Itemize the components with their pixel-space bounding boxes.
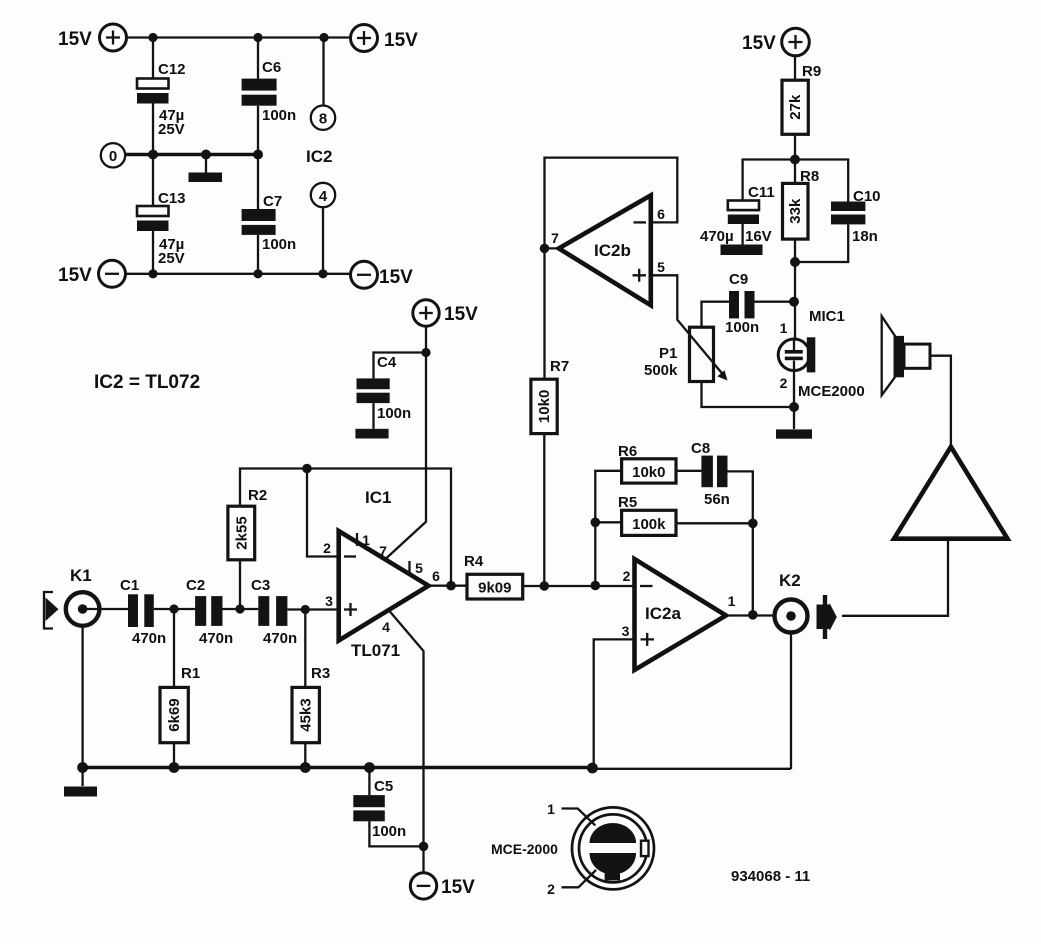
svg-text:45k3: 45k3 [298,698,315,731]
wire C12 branch [152,38,154,155]
svg-text:9k09: 9k09 [478,579,511,596]
resistor R2 [228,487,267,560]
svg-text:IC1: IC1 [365,488,391,507]
op-amp IC1 [339,531,429,641]
wire R1 riser [173,609,175,768]
wire bottom supply rail [126,273,351,275]
svg-text:25V: 25V [158,121,185,138]
svg-text:K1: K1 [70,566,92,585]
svg-text:15V: 15V [58,265,92,286]
wire C2 to C3 [223,608,259,610]
svg-text:C5: C5 [374,778,393,795]
connector key notch [641,841,649,856]
wire main ground rail (thick) [81,766,592,770]
wire R8 bottom [794,239,796,340]
svg-text:470n: 470n [263,630,297,647]
wire R2 top + feedback rail [240,469,451,586]
wire IC1 output [429,585,468,587]
ground C4 [355,429,388,439]
wire C13 branch [152,155,154,274]
svg-text:IC2a: IC2a [645,604,681,623]
svg-text:100n: 100n [372,823,406,840]
wire C5 riser [369,768,423,847]
node ground junctions [77,762,598,773]
svg-text:6k69: 6k69 [166,698,183,731]
terminal -15V bottom [410,873,475,899]
svg-text:100n: 100n [262,236,296,253]
svg-text:R8: R8 [800,168,819,185]
svg-text:2: 2 [547,881,555,897]
capacitor C8 [691,440,730,508]
node riser/pin2 junction [591,581,601,591]
op-amp IC2b [559,195,651,305]
node output junction [446,581,456,591]
capacitor C6 [242,59,297,124]
wire pin4 column to -15V [422,846,424,872]
resistor R9 [782,63,821,134]
svg-text:15V: 15V [379,267,413,288]
ground K1 [64,768,97,797]
pin 8 of IC2 [311,106,335,130]
svg-text:MCE-2000: MCE-2000 [491,841,558,857]
svg-text:R6: R6 [618,443,637,460]
loudspeaker [882,316,930,395]
connector top contact [590,823,637,843]
svg-text:IC2 = TL072: IC2 = TL072 [94,372,200,393]
terminal -15V bottom-right [351,261,414,288]
connector bottom contact [590,853,637,875]
svg-text:R1: R1 [181,665,200,682]
svg-text:C3: C3 [251,577,270,594]
svg-text:33k: 33k [787,198,804,224]
capacitor C3 [251,577,297,647]
svg-text:3: 3 [325,593,333,609]
pin 2 label and minus [623,568,653,586]
svg-text:3: 3 [622,623,630,639]
svg-text:100n: 100n [377,405,411,422]
svg-text:27k: 27k [787,94,804,120]
node junction C3/R3 [301,605,310,614]
connector K1 [66,566,100,626]
svg-text:R7: R7 [550,358,569,375]
capacitor C9 [725,271,759,336]
wire R4 to IC2a pin2 [523,585,634,587]
capacitor C5 [353,778,406,840]
svg-text:100n: 100n [262,107,296,124]
svg-text:R9: R9 [802,63,821,80]
wire R5 right to feedback column [676,522,753,524]
node below R9 [790,155,800,165]
connector body inner ring [579,814,647,882]
pin 3 label and plus [325,593,357,616]
svg-text:1: 1 [547,801,555,817]
svg-text:15V: 15V [441,877,475,898]
resistor R6 [618,443,676,483]
resistor R3 [292,665,330,743]
svg-text:7: 7 [551,230,559,246]
svg-text:C7: C7 [263,193,282,210]
wire C6 branch [257,38,259,155]
node top rail junctions [148,33,328,42]
svg-text:C4: C4 [377,354,397,371]
pin 2 label and minus [323,540,356,557]
node junction C1/R1 [169,604,178,613]
capacitor C10 [831,188,881,245]
wire C10 branch [795,160,848,263]
wire mic bottom [793,370,795,429]
svg-text:470n: 470n [132,630,166,647]
svg-text:100k: 100k [632,516,666,533]
svg-text:R5: R5 [618,494,637,511]
wire C11 branch [743,160,795,246]
wire P1 bottom to mic node [702,382,795,408]
wire C8 right to feedback column [728,471,753,614]
wire ground rail right to K2 [592,768,791,770]
svg-text:C10: C10 [853,188,881,205]
wire C7 branch [257,155,259,274]
svg-text:C11: C11 [748,184,775,201]
wire arrow to amplifier [842,541,948,616]
node IC2b output junction pin7 [540,244,550,254]
svg-text:4: 4 [382,619,390,635]
connector body outer ring [572,807,654,889]
svg-text:2: 2 [780,375,788,391]
svg-text:7: 7 [379,543,387,559]
wire R6/R5 riser [595,471,621,586]
wire R7 column [543,248,546,586]
node bottom rail junctions [148,269,327,278]
node 0 rail junctions [148,150,263,160]
svg-text:5: 5 [657,259,665,275]
svg-text:10k0: 10k0 [536,390,553,423]
resistor R8 [783,168,820,239]
pin 1 tick [357,532,370,548]
ground psu [189,155,223,183]
node R5/C8 column junction [748,519,758,529]
ground C11 [721,245,763,256]
capacitor C2 [186,577,233,647]
wire C4 to ground [372,403,374,429]
wire R6 to C8 [676,470,701,472]
node mic/P1 junction [789,402,799,412]
wire K1 to C1 [84,608,128,610]
leader pin 1 [547,801,595,825]
svg-text:15V: 15V [384,30,418,51]
svg-text:934068 - 11: 934068 - 11 [731,868,810,885]
resistor R4 [464,553,523,599]
svg-text:1: 1 [728,593,736,609]
svg-text:C6: C6 [262,59,281,76]
wire pin8 branch [322,38,324,106]
potentiometer P1 [644,327,714,381]
resistor R5 [618,494,676,535]
svg-text:R2: R2 [248,487,267,504]
wire R9 bottom to node [794,134,796,183]
resistor R1 [160,665,200,743]
svg-text:4: 4 [319,188,328,205]
svg-text:K2: K2 [779,571,801,590]
svg-text:0: 0 [109,148,117,165]
terminal +15V above IC1 [413,300,478,326]
amplifier triangle [894,447,1008,539]
svg-text:15V: 15V [742,33,776,54]
capacitor C12 [137,61,186,138]
wire pin2 riser [307,469,338,557]
svg-text:MIC1: MIC1 [809,308,845,325]
node rail/pin2 junction [302,464,312,474]
svg-text:C8: C8 [691,440,710,457]
svg-text:C1: C1 [120,577,139,594]
svg-text:P1: P1 [659,345,677,362]
terminal +15V top-right [351,25,419,52]
svg-text:C9: C9 [729,271,748,288]
wire pin3 stub and riser [594,639,635,767]
svg-text:16V: 16V [745,228,772,245]
svg-text:15V: 15V [58,29,92,50]
microphone MIC1 [778,308,845,372]
ground mic [776,429,812,438]
output arrow K2 [817,595,837,639]
capacitor C11 [700,184,775,245]
capacitor C7 [242,193,297,253]
node below R8 [790,257,800,267]
terminal -15V bottom-left [58,260,126,287]
svg-text:15V: 15V [444,304,478,325]
svg-text:2: 2 [623,568,631,584]
svg-text:2: 2 [323,540,331,556]
svg-text:IC2b: IC2b [594,241,631,260]
node junction C2/C3/R2 [235,604,244,613]
resistor R7 [531,358,569,434]
wire R5 left stub [595,521,621,523]
svg-text:10k0: 10k0 [632,464,665,481]
wire P1 top to C9 [702,302,730,328]
pin 4 label and V- diagonal [382,611,423,847]
input arrow at K1 [44,592,59,629]
svg-text:IC2: IC2 [306,147,332,166]
terminal +15V top-left [58,24,127,51]
svg-text:56n: 56n [704,491,730,508]
svg-text:C12: C12 [158,61,186,78]
pin 5 label and plus [633,259,666,282]
wire R2 riser lower [239,560,241,609]
svg-text:MCE2000: MCE2000 [798,383,865,400]
svg-text:5: 5 [415,560,423,576]
svg-text:18n: 18n [852,228,878,245]
node C5/-15V junction [419,842,429,852]
pin 3 label and plus [622,623,654,646]
pin 5 tick [410,560,424,576]
node riser/R5 junction [591,518,601,528]
wire C3 to pin3 [287,608,338,610]
connector K2 [775,571,808,633]
svg-text:1: 1 [780,320,788,336]
pin 4 of IC2 [311,183,335,207]
wire R3 riser [304,610,306,768]
svg-text:6: 6 [657,206,665,222]
op-amp IC2a [635,559,727,670]
node R7 bottom junction [540,581,550,591]
wire C1 to C2 [154,608,195,610]
svg-text:C13: C13 [158,190,186,207]
terminal 0 [101,143,125,167]
svg-text:100n: 100n [725,319,759,336]
svg-text:470µ: 470µ [700,228,734,245]
connector bottom tab [605,869,620,881]
wire top supply rail [127,36,351,38]
svg-text:470n: 470n [199,630,233,647]
svg-text:6: 6 [432,568,440,584]
svg-text:TL071: TL071 [351,641,400,660]
wire +15V drop and C4 branch [374,327,431,559]
svg-text:8: 8 [319,111,327,128]
capacitor C1 [120,577,166,647]
svg-text:25V: 25V [158,250,185,267]
leader pin 2 [547,870,596,897]
wire K2 ground drop [790,633,792,769]
svg-text:500k: 500k [644,362,678,379]
wire R9 top [794,56,796,80]
wire feedback loop IC2b [545,158,678,249]
svg-text:R4: R4 [464,553,484,570]
terminal +15V top right [742,28,809,56]
svg-text:C2: C2 [186,577,205,594]
pin 6 label and minus [634,206,666,222]
svg-text:2k55: 2k55 [233,516,250,549]
node C9 junction [789,297,799,307]
wire pin4 branch [322,207,324,274]
wire K1 ground drop [81,626,83,768]
wire IC2a output to K2 [726,614,791,616]
wire C9 to mic column [755,301,795,303]
svg-text:1: 1 [362,532,370,548]
svg-text:R3: R3 [311,665,330,682]
wiper arrowhead P1 [717,370,727,380]
node output/feedback junction [748,610,758,620]
wire 0 rail (thick) [126,153,259,157]
capacitor C13 [137,190,186,267]
wire pin5 to P1 wiper [651,275,723,374]
capacitor C4 [357,354,412,422]
wire amplifier to speaker [930,356,951,448]
